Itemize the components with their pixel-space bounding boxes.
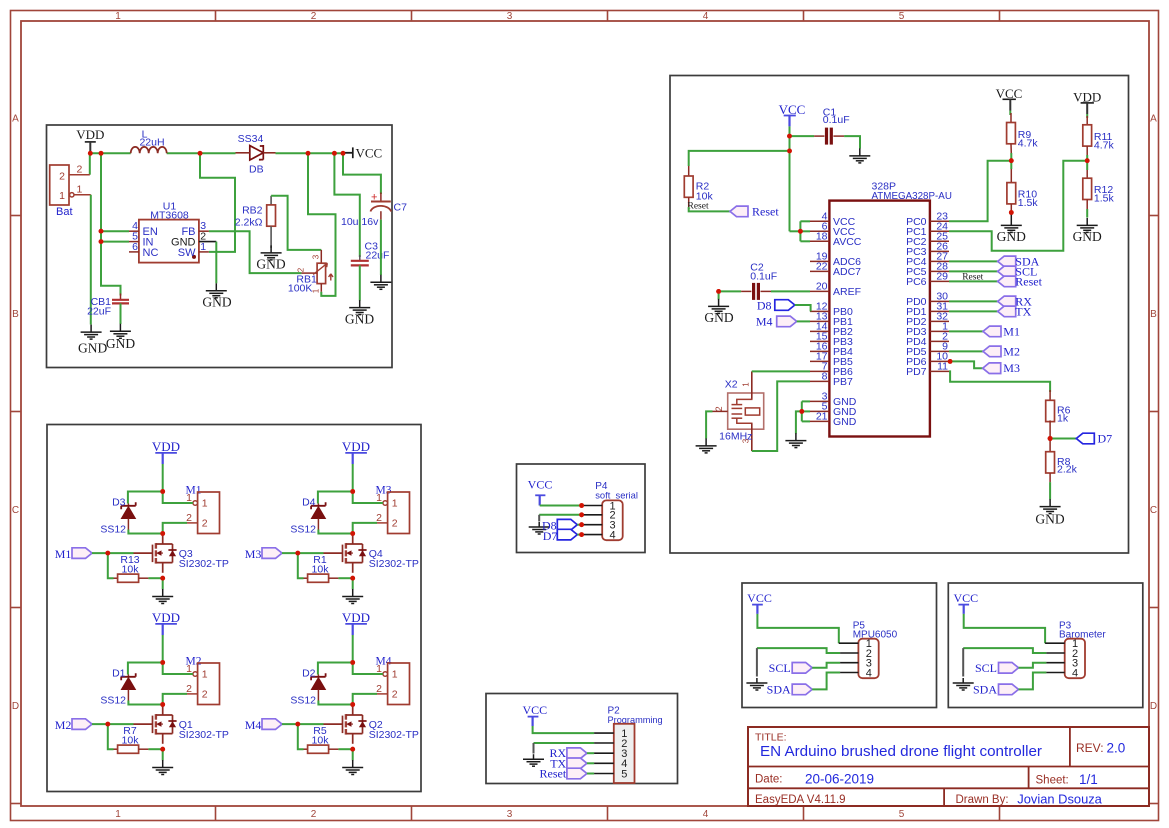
svg-text:6: 6 [132, 241, 138, 253]
svg-text:DB: DB [249, 164, 264, 176]
capacitor C1 0.1uF [814, 135, 824, 137]
resistor R11 4.7k [1086, 114, 1088, 118]
svg-text:2: 2 [311, 11, 317, 22]
mcu section box [670, 76, 1129, 554]
wire P2 pin4 [587, 762, 594, 764]
svg-text:GND: GND [202, 294, 231, 309]
svg-text:1: 1 [202, 669, 208, 681]
wire P5 pin2 GND [757, 648, 840, 653]
chip U1 MT3608 body [139, 220, 199, 263]
svg-text:2.0: 2.0 [1107, 740, 1126, 755]
svg-text:Reset: Reset [1015, 274, 1042, 288]
svg-text:1: 1 [115, 11, 121, 22]
wire P2 pin5 [587, 773, 594, 775]
mcu pin 9 PD5 [930, 350, 949, 352]
U1 pin 1 SW [199, 251, 209, 253]
svg-text:2: 2 [186, 512, 192, 524]
wire source Q2 down [352, 749, 354, 760]
svg-text:VDD: VDD [342, 610, 370, 625]
net flag M3 output [948, 359, 953, 364]
svg-text:100K: 100K [288, 283, 313, 295]
wire VDD to junction Q2 [352, 635, 354, 663]
wire gate to resistor R7 [108, 724, 114, 749]
svg-text:GND: GND [997, 229, 1026, 244]
wire M1 pin1 [163, 492, 193, 504]
svg-text:VCC: VCC [522, 703, 547, 717]
svg-text:NC: NC [143, 247, 159, 259]
svg-text:22uF: 22uF [366, 250, 390, 262]
svg-text:SI2302-TP: SI2302-TP [369, 729, 419, 741]
power supply section box [47, 125, 393, 368]
svg-text:3: 3 [312, 254, 321, 259]
svg-text:1.5k: 1.5k [1094, 193, 1115, 205]
svg-text:TITLE:: TITLE: [755, 732, 787, 744]
transistor Q1 SI2302-TP [134, 723, 153, 725]
connector Bat [50, 165, 69, 205]
svg-text:1: 1 [77, 184, 83, 196]
svg-text:M1: M1 [55, 547, 72, 561]
wire R2 to Reset flag [689, 207, 730, 211]
svg-text:4: 4 [1072, 667, 1078, 679]
U1 pin 4 EN [129, 230, 139, 232]
svg-text:21: 21 [816, 411, 828, 423]
wire X2 pin3 to PB7 [752, 381, 810, 451]
diode D4 SS12 [317, 504, 319, 506]
ground for Q4 [342, 589, 363, 604]
junction VDD stub [88, 151, 93, 156]
wire source Q1 down [162, 749, 164, 760]
svg-text:D7: D7 [1098, 432, 1113, 446]
wire IN to riser [101, 241, 129, 243]
wire gate Q1 [92, 723, 134, 725]
svg-text:D8: D8 [757, 298, 772, 312]
svg-text:16MHz: 16MHz [719, 430, 752, 442]
svg-text:5: 5 [899, 11, 905, 22]
net flag TX [949, 310, 998, 312]
svg-text:MT3608: MT3608 [150, 209, 189, 221]
svg-text:GND: GND [256, 257, 285, 272]
wire diode D4 anode to drain [318, 530, 352, 534]
wire resistor R1 to source [338, 577, 352, 579]
mcu pin 4 VCC [810, 220, 829, 222]
mcu pin 22 ADC7 [810, 270, 829, 272]
mcu pin 24 PC1 [930, 230, 949, 232]
diode D1 SS12 [127, 675, 129, 677]
wire M4 pin1 [353, 663, 383, 675]
svg-text:D3: D3 [112, 496, 126, 508]
soft serial section box [517, 464, 646, 553]
mcu pin 11 PD7 [930, 370, 949, 372]
svg-text:22uF: 22uF [87, 306, 111, 318]
svg-text:C7: C7 [394, 202, 408, 214]
svg-text:ADC7: ADC7 [833, 266, 861, 278]
svg-text:SS12: SS12 [100, 694, 126, 706]
svg-text:4: 4 [703, 809, 709, 820]
P3 section box [948, 583, 1143, 708]
svg-text:soft_serial: soft_serial [595, 489, 638, 500]
ground GND for CB1 [110, 324, 131, 339]
net flag Reset on PC6 [949, 280, 998, 282]
wire C7 to gnd [380, 220, 382, 275]
svg-text:2: 2 [311, 809, 317, 820]
wire GND pins bracket [801, 401, 803, 421]
resistor R13 10k [114, 577, 118, 579]
svg-text:VDD: VDD [76, 127, 104, 142]
mcu pin 18 AVCC [810, 240, 829, 242]
wire VDD to junction Q3 [162, 464, 164, 492]
wire C3 to gnd [359, 265, 361, 300]
wire diode D2 anode to drain [318, 701, 352, 705]
net flag SCL [949, 270, 998, 272]
wire junction to PC0 [949, 161, 1011, 222]
wire drain Q2 [352, 705, 354, 707]
svg-text:1: 1 [392, 498, 398, 510]
mcu pin 1 PD3 [930, 330, 949, 332]
svg-text:SDA: SDA [973, 682, 997, 696]
junction bat pin2 riser [99, 151, 104, 156]
svg-text:2: 2 [202, 688, 208, 700]
svg-text:22uH: 22uH [139, 137, 164, 149]
svg-text:X2: X2 [725, 379, 738, 391]
mcu pin 30 PD0 [930, 300, 949, 302]
svg-text:C: C [12, 505, 19, 516]
ground P5 [746, 678, 767, 690]
wire C2 left to gnd [719, 290, 742, 292]
svg-text:VCC: VCC [356, 145, 383, 160]
wire FB to RB1 wiper [209, 231, 302, 273]
svg-text:20: 20 [816, 281, 828, 293]
wire VDD rail right [276, 152, 344, 154]
svg-text:0.1uF: 0.1uF [823, 114, 850, 126]
chip U3 ATMEGA328P-AU body [829, 201, 930, 437]
svg-text:2: 2 [77, 163, 83, 175]
svg-text:VCC: VCC [747, 591, 772, 605]
wire RB1 bottom riser to rail [308, 153, 336, 296]
svg-text:ATMEGA328P-AU: ATMEGA328P-AU [872, 191, 952, 202]
transistor Q4 SI2302-TP [324, 552, 343, 554]
svg-text:Jovian Dsouza: Jovian Dsouza [1017, 791, 1102, 806]
svg-text:5: 5 [899, 809, 905, 820]
mcu pin 25 PC2 [930, 240, 949, 242]
wire gate Q3 [92, 552, 134, 554]
svg-text:2: 2 [392, 517, 398, 529]
wire CB1 to gnd [120, 303, 122, 324]
resistor R1 10k [304, 577, 308, 579]
wire source Q4 down [352, 578, 354, 589]
mcu pin 21 GND [810, 420, 829, 422]
svg-text:1: 1 [742, 382, 751, 387]
svg-text:VDD: VDD [342, 439, 370, 454]
wire C7 branch [343, 153, 381, 194]
net flag M2 output [949, 350, 983, 352]
wire P2 pin2 GND [534, 742, 595, 744]
mcu pin 7 PB6 [810, 370, 829, 372]
svg-text:3: 3 [507, 11, 513, 22]
capacitor C3 [359, 255, 361, 261]
wire C3 branch [334, 153, 359, 257]
junction C3 branch [332, 151, 337, 156]
svg-text:2: 2 [297, 267, 306, 272]
wire diode D1 anode to drain [128, 701, 162, 705]
wire drain Q1 [162, 705, 164, 707]
mcu pin 6 VCC [810, 230, 829, 232]
svg-text:Reset: Reset [540, 767, 567, 781]
resistor R12 1.5k [1086, 170, 1088, 178]
svg-text:4: 4 [610, 529, 616, 541]
wire M4 pin2 [353, 694, 377, 705]
svg-text:C: C [1150, 505, 1157, 516]
wire C1 to gnd [844, 136, 860, 148]
svg-text:2: 2 [376, 683, 382, 695]
mcu pin 5 GND [810, 410, 829, 412]
svg-text:1k: 1k [1057, 412, 1069, 424]
svg-text:REV:: REV: [1076, 741, 1104, 755]
resistor R8 2.2k [1049, 439, 1051, 452]
wire P5 pin1 VCC [757, 614, 838, 643]
diode D2 SS12 [317, 675, 319, 677]
svg-text:2.2k: 2.2k [1057, 464, 1078, 476]
svg-text:M3: M3 [245, 547, 262, 561]
wire EN to riser [101, 230, 129, 232]
net flag SDA [949, 260, 998, 262]
wire X2 pin1 to PB6 [752, 370, 810, 372]
svg-text:Bat: Bat [56, 206, 73, 218]
mcu pin 15 PB3 [810, 340, 829, 342]
svg-text:VDD: VDD [152, 439, 180, 454]
ground GND for RB2 [261, 245, 282, 260]
wire Bat pin1 down [90, 195, 92, 325]
potentiometer RB1 [320, 250, 322, 263]
svg-text:2.2kΩ: 2.2kΩ [235, 217, 263, 229]
junction diode out [306, 151, 311, 156]
svg-text:A: A [1150, 114, 1157, 125]
wire P2 pin1 VCC [533, 726, 595, 733]
svg-text:M2: M2 [55, 718, 72, 732]
frame row ticks left/right [11, 215, 22, 217]
motor driver section box [47, 425, 421, 792]
svg-text:M4: M4 [756, 314, 773, 328]
svg-text:SS34: SS34 [238, 133, 264, 145]
wire M3 pin2 [353, 523, 377, 534]
svg-text:EN Arduino brushed drone fligh: EN Arduino brushed drone flight controll… [760, 743, 1042, 760]
svg-text:SCL: SCL [769, 661, 791, 675]
wire PD7 to R6 [949, 371, 1050, 392]
ground GND for Bat pin1 [81, 325, 102, 340]
svg-text:SI2302-TP: SI2302-TP [179, 558, 229, 570]
ground for Q1 [152, 760, 173, 775]
wire P3 pin3 SCL [1019, 663, 1047, 668]
svg-text:B: B [12, 309, 19, 320]
svg-text:SS12: SS12 [290, 523, 316, 535]
wire R11-R12 junction [1086, 155, 1088, 170]
mcu pin 17 PB5 [810, 360, 829, 362]
svg-text:M2: M2 [1003, 344, 1020, 358]
ground for C1 [849, 148, 870, 163]
svg-text:11: 11 [937, 361, 948, 373]
mcu pin 3 GND [810, 400, 829, 402]
wire X2 pin2 to gnd [706, 411, 712, 438]
svg-text:SI2302-TP: SI2302-TP [179, 729, 229, 741]
svg-text:GND: GND [1073, 229, 1102, 244]
net flag M1 output [949, 330, 983, 332]
svg-text:1: 1 [312, 288, 321, 293]
wire P3 pin4 SDA [1019, 673, 1047, 690]
ground for C2 [708, 299, 729, 314]
mcu pin 8 PB7 [810, 380, 829, 382]
ground P3 [953, 678, 974, 690]
wire diode D3 anode to drain [128, 530, 162, 534]
mcu pin 26 PC3 [930, 250, 949, 252]
wire P3 pin2 GND [963, 648, 1046, 653]
svg-text:Drawn By:: Drawn By: [956, 794, 1009, 806]
svg-text:22: 22 [816, 261, 828, 273]
mcu pin 2 PD4 [930, 340, 949, 342]
svg-text:GND: GND [106, 336, 135, 351]
svg-text:1: 1 [200, 241, 206, 253]
capacitor CB1 [120, 294, 122, 300]
svg-text:4.7k: 4.7k [1018, 138, 1039, 150]
svg-text:A: A [12, 114, 19, 125]
svg-text:29: 29 [936, 271, 948, 283]
ground for R10 [1001, 214, 1022, 232]
wire P4 pin3 [577, 524, 581, 526]
svg-text:Reset: Reset [688, 201, 709, 211]
svg-text:SW: SW [178, 247, 196, 259]
wire to diode D1 cathode [128, 663, 163, 675]
ground for R12 [1077, 218, 1098, 233]
svg-text:18: 18 [816, 231, 828, 243]
svg-text:1/1: 1/1 [1079, 772, 1098, 787]
svg-text:SCL: SCL [975, 661, 997, 675]
svg-text:VCC: VCC [779, 102, 806, 117]
U1 pin 5 IN [129, 241, 139, 243]
ground for R8 [1040, 499, 1061, 513]
mcu pin 19 ADC6 [810, 260, 829, 262]
transistor Q2 SI2302-TP [324, 723, 343, 725]
mcu pin 10 PD6 [930, 360, 949, 362]
ground GND for C3 [349, 300, 370, 315]
wire drain Q4 [352, 534, 354, 536]
wire VDD rail left [90, 152, 130, 154]
svg-text:RB2: RB2 [242, 204, 263, 216]
svg-text:1.5k: 1.5k [1018, 197, 1039, 209]
wire U1 GND down [215, 242, 217, 284]
svg-text:AREF: AREF [833, 286, 861, 298]
junction rail-EN riser [198, 151, 203, 156]
resistor R5 10k [304, 748, 308, 750]
wire Bat pin2 riser [89, 153, 91, 174]
P5 section box [742, 583, 937, 708]
svg-text:8: 8 [822, 371, 828, 383]
wire P2 pin3 [587, 752, 594, 754]
diode SS34 DB [250, 146, 263, 160]
wire resistor R7 to source [148, 748, 162, 750]
wire gate to resistor R13 [108, 553, 114, 578]
svg-text:VDD: VDD [1073, 89, 1101, 104]
title block row lines [748, 766, 1149, 768]
resistor R10 1.5k [1010, 169, 1012, 183]
wire gate Q2 [282, 723, 324, 725]
mcu pin 12 PB0 [810, 310, 829, 312]
wire M3 pin1 [353, 492, 383, 504]
wire RB2 top to RB1 pin3 [271, 196, 321, 250]
power flag VCC right [343, 152, 353, 154]
mcu pin 32 PD2 [930, 320, 949, 322]
ground for Q2 [342, 760, 363, 775]
svg-text:10k: 10k [312, 563, 330, 575]
svg-text:2: 2 [392, 688, 398, 700]
mcu pin 28 PC5 [930, 270, 949, 272]
svg-text:1: 1 [202, 498, 208, 510]
svg-text:VDD: VDD [152, 610, 180, 625]
svg-text:SDA: SDA [767, 682, 791, 696]
frame column ticks top/bottom [215, 11, 217, 22]
svg-text:M1: M1 [1003, 324, 1020, 338]
svg-text:4: 4 [866, 667, 872, 679]
wire to diode D4 cathode [318, 492, 353, 504]
svg-text:AVCC: AVCC [833, 236, 862, 248]
svg-text:1: 1 [392, 669, 398, 681]
svg-text:Sheet:: Sheet: [1036, 774, 1069, 786]
svg-text:PD7: PD7 [906, 366, 927, 378]
svg-text:M3: M3 [1003, 361, 1020, 375]
wire VDD rail mid [167, 152, 236, 154]
resistor R2 10k [688, 166, 690, 176]
svg-text:TX: TX [1015, 304, 1031, 318]
U1 pin 3 FB [199, 230, 209, 232]
junction C7 branch [341, 151, 346, 156]
U1 pin 6 NC [129, 251, 139, 253]
wire C1 branch [790, 135, 815, 137]
wire gate to resistor R1 [298, 553, 304, 578]
svg-text:20-06-2019: 20-06-2019 [805, 771, 874, 786]
resistor R9 4.7k [1009, 111, 1011, 116]
wire to diode D2 cathode [318, 663, 353, 675]
net flag RX [949, 300, 998, 302]
wire C2 to AREF [771, 290, 810, 292]
wire junction to PC1 [949, 161, 1087, 251]
transistor Q3 SI2302-TP [134, 552, 153, 554]
svg-text:GND: GND [1035, 512, 1064, 527]
wire R12 to gnd [1086, 209, 1088, 218]
wire VDD to junction Q1 [162, 635, 164, 663]
mcu pin 16 PB4 [810, 350, 829, 352]
svg-text:5: 5 [621, 768, 627, 780]
svg-text:2: 2 [202, 517, 208, 529]
svg-text:0.1uF: 0.1uF [750, 271, 777, 283]
svg-text:D: D [12, 701, 19, 712]
wire VCC bracket to pins 4/6/18 [790, 230, 801, 232]
mcu pin 27 PC4 [930, 260, 949, 262]
svg-text:D7: D7 [543, 529, 558, 543]
svg-text:VCC: VCC [953, 591, 978, 605]
svg-text:4: 4 [703, 11, 709, 22]
svg-text:Reset: Reset [752, 204, 779, 218]
svg-text:D1: D1 [112, 667, 126, 679]
junction dots overlay [88, 134, 1090, 752]
diode D3 SS12 [127, 504, 129, 506]
wire gate Q4 [282, 552, 324, 554]
svg-text:VCC: VCC [528, 478, 553, 492]
mcu pin 23 PC0 [930, 220, 949, 222]
svg-text:PC6: PC6 [906, 276, 927, 288]
svg-text:M4: M4 [245, 718, 262, 732]
svg-text:EasyEDA V4.11.9: EasyEDA V4.11.9 [755, 794, 846, 806]
svg-text:4.7k: 4.7k [1094, 140, 1115, 152]
wire resistor R13 to source [148, 577, 162, 579]
mcu pin 14 PB2 [810, 330, 829, 332]
junction D7 [1048, 436, 1053, 441]
